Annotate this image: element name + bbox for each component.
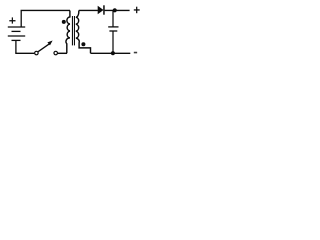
label + output [134, 7, 140, 14]
wire top secondary [79, 9, 98, 11]
battery BT1 [8, 10, 25, 53]
transformer T1 secondary winding [76, 10, 91, 53]
transformer polarity dot primary [62, 20, 66, 24]
wire top primary [21, 9, 70, 11]
label - output [134, 52, 137, 54]
switch S1 [35, 41, 58, 55]
capacitor C1 [108, 10, 118, 53]
wire bottom right [91, 52, 131, 54]
wire bottom left [15, 52, 34, 54]
diode D1 [98, 5, 104, 14]
transformer polarity dot secondary [81, 42, 85, 46]
transformer T1 core [71, 16, 73, 45]
junction node bottom [111, 51, 115, 55]
junction node top [113, 8, 117, 12]
label + battery [9, 17, 15, 23]
transformer T1 primary winding [66, 10, 70, 53]
wire top right [105, 9, 130, 11]
wire bottom mid [58, 52, 67, 54]
